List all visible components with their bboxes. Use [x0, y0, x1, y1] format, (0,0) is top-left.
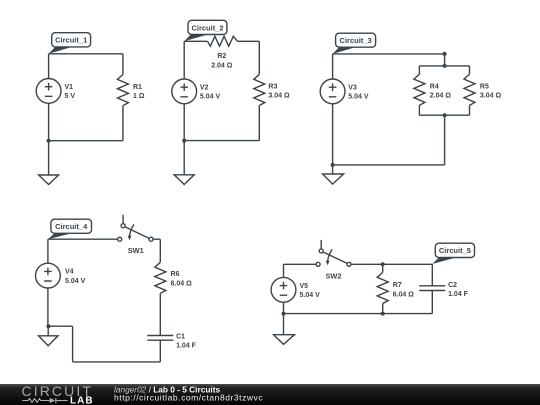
svg-text:LAB: LAB	[70, 395, 94, 405]
svg-text:6.04 Ω: 6.04 Ω	[393, 291, 415, 298]
svg-text:V4: V4	[65, 269, 74, 276]
svg-text:R2: R2	[217, 53, 226, 60]
svg-text:Circuit_3: Circuit_3	[340, 36, 372, 45]
svg-text:Circuit_5: Circuit_5	[439, 246, 471, 255]
svg-text:5.04 V: 5.04 V	[300, 292, 321, 299]
svg-text:2.04 Ω: 2.04 Ω	[430, 93, 452, 100]
svg-text:R1: R1	[133, 84, 142, 91]
svg-text:2.04 Ω: 2.04 Ω	[211, 62, 233, 69]
svg-text:C1: C1	[176, 333, 185, 340]
svg-text:SW1: SW1	[128, 246, 144, 255]
svg-text:1 Ω: 1 Ω	[133, 93, 145, 100]
svg-text:R4: R4	[430, 83, 439, 90]
svg-text:V5: V5	[300, 283, 309, 290]
svg-text:R5: R5	[480, 83, 489, 90]
svg-text:http://circuitlab.com/ctan8dr3: http://circuitlab.com/ctan8dr3tzwvc	[114, 393, 263, 403]
svg-text:V2: V2	[200, 84, 209, 91]
svg-text:SW2: SW2	[325, 271, 341, 280]
svg-text:V3: V3	[348, 84, 357, 91]
svg-text:5.04 V: 5.04 V	[200, 94, 221, 101]
svg-text:Circuit_1: Circuit_1	[55, 36, 87, 45]
svg-text:3.04 Ω: 3.04 Ω	[480, 93, 502, 100]
svg-text:6.04 Ω: 6.04 Ω	[171, 280, 193, 287]
svg-text:1.04 F: 1.04 F	[448, 291, 469, 298]
svg-text:5 V: 5 V	[65, 93, 76, 100]
svg-text:R6: R6	[171, 271, 180, 278]
svg-text:Circuit_4: Circuit_4	[55, 222, 88, 231]
svg-text:Circuit_2: Circuit_2	[191, 23, 223, 32]
svg-text:3.04 Ω: 3.04 Ω	[268, 93, 290, 100]
svg-text:R3: R3	[268, 83, 277, 90]
svg-text:C2: C2	[448, 282, 457, 289]
svg-text:R7: R7	[393, 282, 402, 289]
svg-text:V1: V1	[65, 84, 74, 91]
svg-text:5.04 V: 5.04 V	[348, 94, 369, 101]
svg-text:5.04 V: 5.04 V	[65, 278, 86, 285]
svg-text:1.04 F: 1.04 F	[176, 343, 197, 350]
